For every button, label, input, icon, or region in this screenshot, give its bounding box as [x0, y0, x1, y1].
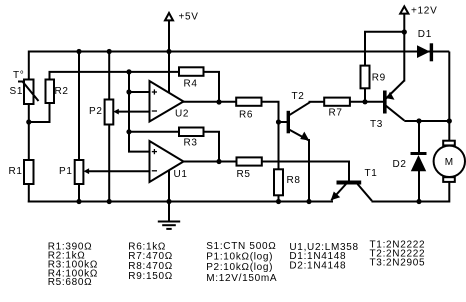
wire S1 bottom to node — [28, 104, 30, 124]
wire U1 output to R5 — [183, 161, 237, 163]
svg-text:P1: P1 — [59, 166, 73, 177]
svg-text:R5: R5 — [237, 169, 251, 180]
svg-text:D2:1N4148: D2:1N4148 — [289, 260, 346, 271]
transistor T2 emitter arrow — [300, 132, 309, 141]
potentiometer P2 body — [105, 100, 114, 125]
resistor R6 — [236, 98, 261, 106]
wire hysteresis vertical node — [129, 71, 150, 152]
wire R3 left — [129, 131, 179, 133]
wire motor bottom return — [419, 182, 449, 202]
svg-text:R8: R8 — [287, 175, 301, 186]
svg-text:M:12V/150mA: M:12V/150mA — [206, 273, 277, 284]
junction T2 emitter on ground rail — [306, 199, 311, 204]
transistor T3 emitter arrow — [387, 92, 395, 100]
svg-text:T°: T° — [13, 70, 25, 81]
op-amp U1 — [150, 141, 184, 182]
junction ground symbol on rail — [166, 199, 171, 204]
wire T1 collector to D2 node — [372, 201, 420, 203]
resistor R9 — [361, 66, 370, 89]
transistor T2 base bar — [287, 111, 290, 134]
wire U2 output to R6 — [183, 101, 236, 103]
svg-text:R9: R9 — [372, 73, 386, 84]
wire R6 right to T2 base node — [262, 102, 279, 170]
wire right vertical D1 to motor — [448, 52, 450, 142]
wire R3 right to U1 output — [204, 132, 220, 162]
wire R1 bottom to ground rail — [28, 184, 30, 203]
thermistor S1 — [18, 80, 39, 105]
wire U2 V+ power — [168, 52, 170, 94]
junction D2 anode / motor return node — [416, 199, 421, 204]
parts list column 2 — [128, 241, 173, 282]
supply +12V symbol — [400, 6, 408, 13]
wire P1 top — [78, 52, 80, 161]
wire T3 emitter diagonal — [386, 81, 404, 99]
svg-text:S1: S1 — [10, 86, 24, 97]
wire S1 top drop — [28, 51, 30, 81]
junction U1 output node — [216, 159, 221, 164]
junction U2 noninverting input node — [126, 89, 131, 94]
wire R2 top to R4 — [50, 72, 180, 80]
svg-text:D2: D2 — [393, 159, 407, 170]
wire T1 emitter diagonal — [331, 184, 346, 200]
svg-text:P2: P2 — [89, 106, 103, 117]
transistor T3 base bar — [383, 91, 387, 114]
resistor R2 — [46, 80, 55, 104]
svg-text:T1: T1 — [365, 168, 378, 179]
svg-text:M: M — [445, 157, 454, 168]
wire T2 collector diagonal — [289, 102, 310, 115]
transistor T1 base bar — [337, 181, 362, 185]
parts list column 5 — [370, 240, 426, 269]
junction R3 left node — [126, 129, 131, 134]
wire R9 bottom — [364, 88, 366, 102]
wire R5 right to T1 base — [262, 162, 349, 182]
junction R2/R4 hysteresis node — [126, 69, 131, 74]
wire R2 bottom to node — [28, 103, 50, 123]
svg-text:+12V: +12V — [411, 6, 437, 17]
resistor R4 — [179, 67, 204, 76]
wire R7 right to T3 base node — [350, 101, 384, 103]
wire P1 bottom — [78, 184, 80, 202]
wire T3 collector diagonal — [386, 106, 404, 121]
resistor R1 — [24, 160, 34, 184]
junction T2 base / R8 node — [276, 119, 281, 124]
op-amp U2 — [150, 81, 184, 122]
wire D2 bottom — [418, 171, 420, 202]
junction U2 output node — [216, 99, 221, 104]
wire top +5V rail — [28, 51, 449, 53]
wire T2 base — [279, 121, 288, 123]
junction P2 bottom on ground rail — [107, 199, 112, 204]
wire T3 emitter vertical — [403, 32, 405, 82]
wire R8 bottom — [278, 195, 280, 202]
junction R8 bottom on ground rail — [276, 199, 281, 204]
diode D2 — [411, 152, 427, 171]
svg-text:R5:680Ω: R5:680Ω — [48, 277, 93, 288]
junction D2 cathode / T3 collector node — [416, 118, 421, 123]
resistor R7 — [324, 98, 350, 106]
resistor R5 — [237, 157, 262, 165]
wire T3 collector rail — [404, 120, 449, 122]
wire T1 base — [348, 162, 350, 182]
junction R9/R7/T3 base node — [362, 99, 367, 104]
junction P1 bottom on ground rail — [76, 199, 81, 204]
supply +5V symbol — [165, 13, 173, 20]
svg-text:R7: R7 — [329, 108, 343, 119]
wire +5V stem — [168, 21, 170, 52]
parts list column 3 — [206, 241, 277, 284]
svg-text:R4: R4 — [184, 79, 198, 90]
wire P1 wiper to U1 inverting input — [86, 170, 149, 172]
wire U1 V- to ground rail — [168, 170, 170, 202]
svg-text:T3:2N2905: T3:2N2905 — [370, 257, 426, 268]
wire node to R1 — [28, 122, 30, 161]
wire +12V stem — [403, 14, 405, 32]
wire P2 bottom — [108, 124, 110, 202]
junction +12V node — [402, 29, 407, 34]
svg-text:R1: R1 — [9, 166, 23, 177]
potentiometer P1 body — [75, 160, 84, 184]
wire T2 collector to R7 — [309, 101, 325, 103]
wire T2 emitter to ground — [308, 139, 310, 202]
wire R4 right to U2 output — [204, 72, 220, 102]
wire T2 emitter diagonal — [289, 130, 309, 141]
resistor R8 — [274, 169, 283, 195]
wire R9 top to +12V line — [365, 32, 404, 66]
potentiometer P1 wiper arrow — [84, 168, 90, 174]
svg-text:R9:150Ω: R9:150Ω — [128, 271, 173, 282]
ground symbol — [158, 202, 180, 229]
junction +5V feed on rail — [166, 49, 171, 54]
svg-text:D1: D1 — [418, 29, 432, 40]
parts list column 4 — [289, 242, 358, 271]
svg-text:P2:10kΩ(log): P2:10kΩ(log) — [206, 262, 273, 273]
svg-text:S1:CTN 500Ω: S1:CTN 500Ω — [206, 241, 276, 252]
junction motor top / T3 collector node — [447, 118, 452, 123]
potentiometer P2 wiper arrow — [113, 109, 119, 115]
svg-text:T2: T2 — [292, 91, 305, 102]
wire P2 top — [108, 52, 110, 101]
wire bottom ground rail — [28, 201, 333, 203]
resistor R3 — [179, 128, 204, 137]
wire D2 top — [418, 121, 420, 153]
parts list column 1 — [48, 241, 98, 288]
diode D1 — [417, 43, 433, 61]
svg-text:P1:10kΩ(log): P1:10kΩ(log) — [206, 252, 273, 263]
junction P2 top on +5V rail — [107, 49, 112, 54]
wire U2 noninverting input — [129, 91, 150, 93]
junction P1 top on +5V rail — [76, 49, 81, 54]
motor M — [434, 141, 465, 182]
wire T1 collector diagonal — [358, 184, 372, 201]
svg-text:R2: R2 — [55, 86, 69, 97]
svg-text:R3: R3 — [184, 138, 198, 149]
svg-text:U2: U2 — [175, 109, 189, 120]
junction S1/R2/R1 divider node — [26, 119, 31, 124]
wire P2 wiper to U2 inverting input — [116, 111, 150, 113]
svg-text:T3: T3 — [370, 119, 383, 130]
transistor T1 emitter arrow — [331, 192, 340, 201]
svg-text:R6: R6 — [239, 110, 253, 121]
svg-text:U1: U1 — [174, 169, 188, 180]
svg-text:+5V: +5V — [179, 12, 199, 23]
